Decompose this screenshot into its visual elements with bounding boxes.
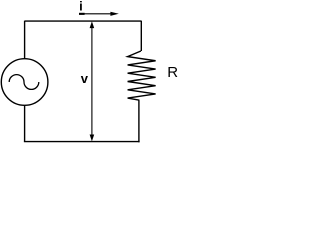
resistor R1 zigzag [128, 51, 156, 100]
wire right lower [138, 100, 140, 142]
ac source V1 [1, 59, 48, 106]
wire top [25, 20, 142, 22]
wire left upper [24, 21, 26, 59]
svg-text:v: v [81, 71, 89, 86]
wire bottom [24, 141, 140, 143]
voltage arrow v [90, 21, 95, 141]
wire left lower [24, 106, 26, 142]
wire right upper [140, 21, 142, 51]
svg-text:R: R [167, 64, 178, 81]
current arrow i [79, 12, 119, 16]
svg-text:i: i [79, 0, 83, 14]
